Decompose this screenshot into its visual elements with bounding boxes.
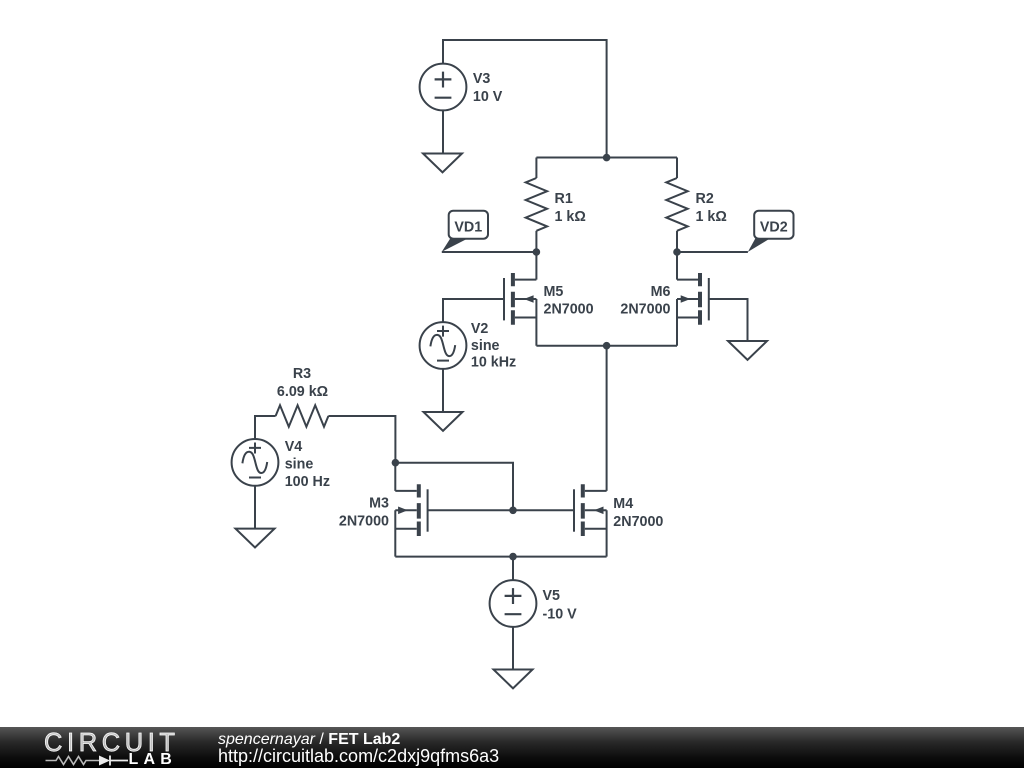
ground under V5 [494,670,533,689]
label V5 value [543,588,578,623]
transistor M4 [574,484,607,556]
ground at M6 gate [728,341,767,360]
node junction VD1 [533,248,541,256]
svg-text:2N7000: 2N7000 [613,514,663,530]
wire node A to gate junction [395,463,513,511]
label V3 value [473,71,503,105]
svg-text:M3: M3 [369,496,389,512]
svg-text:-10 V: -10 V [543,607,578,623]
CircuitLab logo text [0,727,220,768]
label R3 value [277,366,328,400]
node junction gates [509,507,517,515]
svg-text:1 kΩ: 1 kΩ [696,209,727,225]
label M6 value [620,284,670,318]
voltage source V4 [232,439,279,486]
wire tail rail [536,345,677,347]
resistor R2 [666,158,687,253]
svg-text:M6: M6 [651,284,671,300]
svg-text:V4: V4 [285,439,303,455]
svg-text:R3: R3 [293,366,311,382]
wire V2 bottom lead [442,369,444,412]
ground under V3 [423,154,462,173]
svg-text:VD2: VD2 [760,219,788,235]
svg-text:6.09 kΩ: 6.09 kΩ [277,384,328,400]
svg-text:R2: R2 [696,191,714,207]
node flag VD2 [748,211,794,252]
wire bottom rail [395,556,606,558]
svg-text:V2: V2 [471,321,489,337]
wire tail down to M4 drain [606,346,608,491]
voltage source V5 [490,580,537,627]
byline text [218,731,400,749]
wire top supply rail [536,157,677,159]
svg-text:VD1: VD1 [454,219,482,235]
svg-text:sine: sine [471,338,500,354]
svg-text:100 Hz: 100 Hz [285,474,330,490]
node junction top rail [603,154,611,162]
svg-text:M4: M4 [613,496,633,512]
label M5 value [544,284,594,318]
svg-text:1 kΩ: 1 kΩ [555,209,586,225]
wire V3 top to rail [443,40,607,158]
CircuitLab logo schematic doodle [0,727,200,768]
footer bar [0,727,1024,768]
voltage source V2 [420,322,467,369]
wire V2 to M5 gate [443,299,504,322]
node junction tail [603,342,611,350]
node junction bottom rail [509,553,517,561]
wire V3 bottom lead [442,110,444,153]
label V4 value [285,439,330,490]
wire M6 gate to ground [709,299,748,341]
resistor R1 [526,158,547,253]
resistor R3 [255,405,395,462]
wire node VD1 [442,251,537,253]
node A junction [392,459,400,467]
ground under V4 [236,529,275,548]
svg-text:M5: M5 [544,284,564,300]
svg-text:V5: V5 [543,588,561,604]
ground under V2 [424,412,463,431]
label M4 value [613,496,663,530]
svg-text:V3: V3 [473,71,491,87]
svg-text:sine: sine [285,457,314,473]
url text [218,746,499,767]
svg-text:2N7000: 2N7000 [339,514,389,530]
voltage source V3 [420,64,467,111]
wire gate rail M3 M4 [428,509,574,511]
wire V5 bottom lead [512,627,514,670]
transistor M5 [504,252,536,346]
label M3 value [339,496,389,530]
CircuitLab logo LAB [129,751,177,768]
svg-text:2N7000: 2N7000 [544,302,594,318]
label R2 value [696,191,727,225]
label R1 value [555,191,586,225]
wire node VD2 [677,251,748,253]
svg-text:2N7000: 2N7000 [620,302,670,318]
svg-text:10 kHz: 10 kHz [471,355,516,371]
node junction VD2 [673,248,681,256]
wire V4 bottom lead [254,486,256,529]
transistor M3 [395,463,427,557]
node flag VD1 [442,211,488,252]
svg-text:R1: R1 [555,191,573,207]
transistor M6 [677,252,709,346]
svg-text:10 V: 10 V [473,89,503,105]
wire rail to V5 [512,557,514,581]
label V2 value [471,321,516,371]
